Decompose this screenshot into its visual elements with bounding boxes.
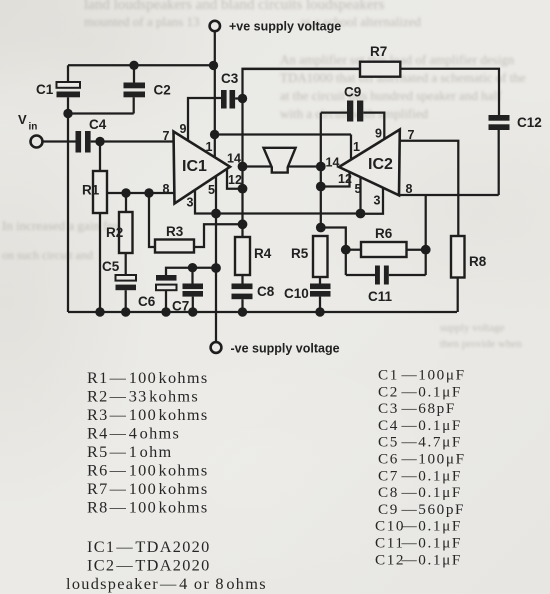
svg-text:V: V bbox=[18, 112, 27, 127]
wire R5 to R6 link bbox=[321, 228, 346, 276]
bleed-through ghost text lines bbox=[84, 0, 550, 14]
wire left ground drop bbox=[67, 114, 69, 313]
wire Vin to C4 bbox=[43, 140, 76, 142]
resistor R3 bbox=[155, 224, 194, 253]
svg-text:R1—100kohms: R1—100kohms bbox=[87, 368, 208, 387]
svg-text:C5: C5 bbox=[378, 434, 399, 451]
svg-text:14: 14 bbox=[326, 156, 340, 170]
svg-text:3: 3 bbox=[374, 194, 381, 208]
svg-text:-ve supply voltage: -ve supply voltage bbox=[231, 342, 340, 356]
svg-text:8: 8 bbox=[163, 182, 170, 196]
capacitor C4 bbox=[76, 117, 107, 153]
wire C1-C2 bottoms bbox=[68, 112, 134, 114]
svg-text:C6: C6 bbox=[138, 294, 156, 309]
svg-text:C2: C2 bbox=[154, 83, 171, 98]
svg-text:+ve supply voltage: +ve supply voltage bbox=[229, 20, 341, 34]
wire C12 drop bbox=[498, 130, 500, 195]
svg-text:—68pF: —68pF bbox=[401, 400, 456, 417]
wire IC1 output column bbox=[241, 99, 243, 238]
capacitor C9 bbox=[344, 85, 363, 122]
svg-text:C1: C1 bbox=[378, 367, 399, 384]
svg-text:1: 1 bbox=[206, 140, 213, 154]
wire speaker link bbox=[243, 165, 321, 167]
svg-text:9: 9 bbox=[180, 122, 187, 136]
svg-text:R4: R4 bbox=[254, 246, 272, 261]
IC2 pin labels bbox=[326, 127, 415, 208]
node pin5 bbox=[211, 209, 221, 219]
svg-text:C1: C1 bbox=[36, 82, 54, 97]
svg-text:—0.1μF: —0.1μF bbox=[401, 383, 462, 400]
svg-text:C6: C6 bbox=[378, 451, 399, 468]
resistor R5 bbox=[291, 236, 328, 277]
wire to R2 bbox=[125, 193, 127, 212]
wire R3 right lead bbox=[194, 224, 243, 247]
svg-text:—0.1μF: —0.1μF bbox=[401, 467, 462, 484]
svg-text:—0.1μF: —0.1μF bbox=[401, 417, 462, 434]
wire R2 to C5 bbox=[125, 253, 127, 275]
capacitor C5 bbox=[102, 259, 136, 312]
loudspeaker bbox=[264, 148, 296, 173]
wire pin1 rail to IC2 bbox=[215, 133, 351, 135]
svg-text:C11: C11 bbox=[368, 289, 393, 304]
node C6/C7 bbox=[188, 263, 197, 272]
svg-text:R4—4ohms: R4—4ohms bbox=[87, 424, 180, 443]
svg-text:9: 9 bbox=[375, 127, 382, 141]
svg-text:—0.1μF: —0.1μF bbox=[401, 518, 462, 535]
wire IC2 pin12 lead bbox=[321, 172, 350, 187]
Vin label bbox=[18, 112, 37, 133]
wire IC2 pin3 lead bbox=[361, 188, 384, 214]
wire IC2 pin8 bbox=[399, 194, 499, 196]
capacitor C8 bbox=[232, 275, 275, 312]
node R1 rail bbox=[95, 307, 104, 316]
parts list bbox=[66, 368, 267, 593]
svg-text:IC1: IC1 bbox=[182, 158, 207, 175]
wire C4 to IC1 pin7 bbox=[91, 140, 174, 142]
svg-text:C7: C7 bbox=[378, 467, 399, 484]
wire IC2 output column bbox=[320, 113, 322, 228]
svg-text:C10: C10 bbox=[284, 286, 309, 301]
node C4 output bbox=[95, 137, 104, 146]
resistor R8 bbox=[451, 236, 487, 278]
node IC1 pin12 bbox=[238, 184, 248, 194]
svg-text:R1: R1 bbox=[82, 183, 100, 198]
svg-text:R2: R2 bbox=[106, 225, 123, 240]
svg-text:7: 7 bbox=[163, 129, 170, 143]
resistor R1 bbox=[82, 171, 107, 213]
node C10 rail bbox=[315, 307, 324, 316]
svg-text:R8: R8 bbox=[469, 254, 487, 269]
svg-text:—0.1μF: —0.1μF bbox=[401, 484, 462, 501]
node pin1 rail junction bbox=[210, 130, 219, 139]
svg-text:C9: C9 bbox=[344, 85, 361, 100]
wire node to C7 bbox=[191, 268, 193, 284]
node IC2 pin5 bbox=[356, 209, 366, 219]
svg-text:IC2—TDA2020: IC2—TDA2020 bbox=[87, 556, 211, 575]
IC1 pin labels bbox=[163, 122, 242, 210]
svg-text:C7: C7 bbox=[172, 299, 189, 314]
capacitor C7 bbox=[172, 284, 203, 314]
capacitor C1 bbox=[36, 65, 80, 113]
op-amp IC2 bbox=[339, 130, 400, 196]
svg-text:R8—100kohms: R8—100kohms bbox=[87, 498, 208, 517]
svg-text:R6—100kohms: R6—100kohms bbox=[87, 461, 208, 480]
node IC2 output bbox=[316, 162, 326, 172]
svg-text:—100μF: —100μF bbox=[401, 367, 466, 384]
wire pin8 drop bbox=[425, 195, 427, 275]
wire R8 bottom to rail bbox=[457, 278, 459, 313]
svg-text:R7—100kohms: R7—100kohms bbox=[87, 479, 208, 498]
svg-text:3: 3 bbox=[187, 196, 194, 210]
node R3/R4 bbox=[238, 219, 248, 229]
svg-text:R5—1ohm: R5—1ohm bbox=[87, 442, 173, 461]
svg-text:R5: R5 bbox=[291, 246, 309, 261]
capacitor C10 bbox=[284, 277, 331, 312]
node supply-rail junction bbox=[209, 61, 218, 70]
svg-text:C4: C4 bbox=[378, 417, 399, 434]
svg-text:R3—100kohms: R3—100kohms bbox=[87, 405, 208, 424]
capacitor C12 bbox=[489, 115, 542, 130]
op-amp IC1 bbox=[174, 132, 231, 204]
svg-text:C9: C9 bbox=[378, 501, 399, 518]
wire IC1 pin5 lead bbox=[215, 176, 217, 214]
svg-text:C2: C2 bbox=[378, 383, 399, 400]
capacitor C2 bbox=[124, 65, 171, 113]
node R6 right bbox=[421, 245, 431, 255]
wire C6 top node bbox=[166, 268, 216, 275]
svg-text:C8: C8 bbox=[378, 484, 399, 501]
wire R1 bottom to rail bbox=[99, 213, 101, 312]
node C1 bottom bbox=[63, 109, 72, 118]
svg-text:5: 5 bbox=[208, 183, 215, 197]
svg-text:IC1—TDA2020: IC1—TDA2020 bbox=[87, 537, 211, 556]
svg-text:C5: C5 bbox=[102, 259, 120, 274]
svg-text:1: 1 bbox=[353, 140, 360, 154]
svg-text:R7: R7 bbox=[370, 44, 387, 59]
node R5 top bbox=[316, 223, 326, 233]
wire -ve supply drop bbox=[215, 214, 217, 343]
resistor R4 bbox=[235, 237, 272, 275]
wire IC1 pin3 lead + node wire bbox=[195, 190, 361, 214]
+ve supply terminal bbox=[210, 21, 220, 31]
svg-text:R6: R6 bbox=[375, 226, 393, 241]
wire +ve supply drop to pin1 rail bbox=[214, 32, 216, 158]
node C3 output bbox=[238, 94, 247, 103]
capacitor C11 bbox=[346, 266, 426, 305]
wire IC1 pin8 bbox=[107, 192, 174, 194]
node C6 rail bbox=[161, 307, 170, 316]
wire IC2 pin7 to R8 bbox=[400, 141, 458, 236]
wire IC1 pin9 to C3 bbox=[188, 98, 221, 141]
node IC1 output bbox=[238, 162, 248, 172]
svg-text:C3: C3 bbox=[221, 71, 239, 86]
wire C3 right to node bbox=[235, 97, 242, 99]
node C5 rail bbox=[121, 307, 130, 316]
wire top rail C1/C2 bbox=[68, 64, 214, 66]
svg-text:—560pF: —560pF bbox=[401, 501, 466, 518]
svg-text:IC2: IC2 bbox=[368, 156, 393, 173]
wire node to R1 bbox=[99, 142, 101, 172]
svg-text:loudspeaker—4 or 8ohms: loudspeaker—4 or 8ohms bbox=[66, 574, 267, 593]
node R6 left bbox=[341, 245, 351, 255]
svg-text:C12: C12 bbox=[517, 115, 542, 130]
svg-text:C11: C11 bbox=[375, 535, 405, 552]
wire IC2 pin1 lead bbox=[350, 135, 352, 161]
wire IC1 pin12 lead bbox=[227, 169, 243, 189]
wire bottom rail bbox=[68, 311, 457, 313]
svg-text:14: 14 bbox=[227, 152, 241, 166]
wire R6 right lead bbox=[407, 249, 426, 251]
svg-text:—4.7μF: —4.7μF bbox=[401, 434, 462, 451]
resistor R7 bbox=[243, 44, 401, 77]
node C7 rail bbox=[188, 307, 197, 316]
node pin8-R2 bbox=[121, 188, 130, 197]
capacitor C6 bbox=[138, 275, 177, 312]
node C2 top bbox=[129, 61, 138, 70]
wire IC2 pin5 lead bbox=[359, 177, 361, 214]
svg-text:R3: R3 bbox=[166, 224, 184, 239]
svg-text:—0.1μF: —0.1μF bbox=[401, 551, 462, 568]
node C6/C7 to -ve line bbox=[211, 263, 221, 273]
wire C9 to pin9 bbox=[363, 113, 384, 140]
svg-text:12: 12 bbox=[228, 173, 242, 187]
node IC2 pin12 bbox=[316, 182, 326, 192]
capacitor C3 bbox=[221, 71, 239, 109]
wire C3 node riser to R7 bbox=[243, 69, 361, 99]
wire C9 loop bbox=[321, 111, 347, 113]
svg-text:C8: C8 bbox=[257, 284, 275, 299]
node pin8-R3 bbox=[144, 188, 153, 197]
svg-text:C3: C3 bbox=[378, 400, 399, 417]
resistor R2 bbox=[106, 212, 133, 253]
svg-text:—0.1μF: —0.1μF bbox=[401, 535, 462, 552]
resistor R6 bbox=[346, 226, 407, 257]
node C8 rail bbox=[238, 307, 247, 316]
Vin terminal bbox=[31, 136, 43, 148]
svg-text:R2—33kohms: R2—33kohms bbox=[87, 387, 199, 406]
svg-text:in: in bbox=[29, 122, 38, 133]
wire C12 to R7 bbox=[400, 69, 499, 115]
-ve supply terminal bbox=[211, 342, 222, 353]
svg-text:—100μF: —100μF bbox=[401, 451, 466, 468]
wire R3 left lead bbox=[149, 193, 155, 247]
svg-text:C4: C4 bbox=[89, 117, 107, 132]
